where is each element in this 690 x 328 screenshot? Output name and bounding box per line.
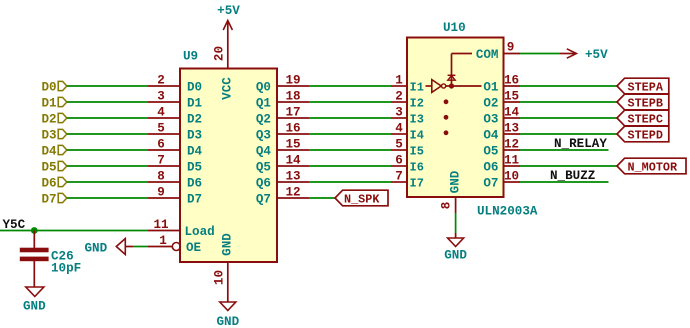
svg-text:10: 10 bbox=[213, 270, 227, 285]
power +5V symbol at U9 VCC bbox=[217, 4, 240, 39]
svg-text:1: 1 bbox=[159, 234, 167, 248]
wire D3 to U9 pin 5 bbox=[67, 133, 148, 135]
svg-text:Q6: Q6 bbox=[256, 177, 271, 191]
U10 pin name I7 bbox=[410, 177, 424, 191]
U9 pin name OE bbox=[186, 241, 202, 255]
svg-text:D1: D1 bbox=[42, 97, 58, 111]
svg-text:O2: O2 bbox=[483, 97, 498, 111]
svg-text:9: 9 bbox=[157, 186, 165, 200]
global label STEPA bbox=[617, 78, 669, 94]
U9 pin 6 (D4) bbox=[148, 138, 180, 152]
U9 pin 11 (Load) bbox=[148, 218, 180, 232]
svg-text:13: 13 bbox=[504, 122, 519, 136]
IC U10 ULN2003A body bbox=[407, 38, 504, 198]
ground symbol below U10 bbox=[444, 233, 467, 263]
U10 pin 6 (I6) bbox=[391, 154, 407, 168]
svg-text:11: 11 bbox=[153, 218, 169, 232]
svg-text:OE: OE bbox=[186, 241, 202, 255]
svg-text:O4: O4 bbox=[483, 129, 499, 143]
U9 pin 20 VCC bbox=[213, 39, 228, 69]
U9 reference designator bbox=[183, 50, 198, 64]
svg-text:Q7: Q7 bbox=[256, 193, 271, 207]
U9 pin 1 (OE, inverted) bbox=[148, 234, 180, 250]
U9 pin name Q3 bbox=[256, 129, 271, 143]
U9 pin name D1 bbox=[187, 97, 203, 111]
svg-text:O1: O1 bbox=[483, 81, 499, 95]
U10 pin 5 (I5) bbox=[391, 138, 407, 152]
wire U10 pin 8 to GND bbox=[455, 213, 457, 233]
hierarchical label D2 bbox=[42, 113, 67, 127]
U10 pin name O7 bbox=[483, 177, 498, 191]
U10 pin 9 (COM) bbox=[504, 41, 521, 55]
svg-text:+5V: +5V bbox=[217, 4, 240, 18]
wire O5 N_RELAY bbox=[520, 149, 609, 151]
net label Y5C bbox=[3, 218, 26, 232]
svg-text:D4: D4 bbox=[187, 145, 203, 159]
svg-text:Q5: Q5 bbox=[256, 161, 271, 175]
U10 pin name I1 bbox=[410, 81, 424, 95]
wire Q0 to U10 pin 1 bbox=[309, 85, 391, 87]
svg-text:7: 7 bbox=[395, 170, 403, 184]
svg-text:COM: COM bbox=[476, 48, 499, 62]
U9 pin name D2 bbox=[187, 113, 202, 127]
U10 pin 15 (O2) bbox=[504, 90, 521, 104]
svg-text:4: 4 bbox=[395, 122, 403, 136]
svg-text:D3: D3 bbox=[187, 129, 202, 143]
svg-text:D6: D6 bbox=[42, 177, 57, 191]
U10 pin name O5 bbox=[483, 145, 498, 159]
ground symbol below C26 bbox=[23, 287, 46, 314]
power +5V symbol at U10 COM bbox=[560, 48, 608, 62]
wire O2 to STEPB bbox=[520, 101, 617, 103]
svg-text:16: 16 bbox=[504, 74, 519, 88]
global label N_MOTOR bbox=[617, 158, 686, 174]
junction at Y5C node bbox=[31, 227, 38, 234]
svg-text:5: 5 bbox=[395, 138, 403, 152]
U10 pin 7 (I7) bbox=[391, 170, 407, 184]
hierarchical label D6 bbox=[42, 177, 67, 191]
U10 pin name O1 bbox=[483, 81, 499, 95]
svg-text:6: 6 bbox=[157, 138, 165, 152]
U9 pin 15 (Q4) bbox=[277, 138, 309, 152]
svg-text:3: 3 bbox=[395, 106, 403, 120]
U9 pin 9 (D7) bbox=[148, 186, 180, 200]
C26 reference designator bbox=[51, 250, 74, 264]
U10 pin name O2 bbox=[483, 97, 498, 111]
U9 pin name Q5 bbox=[256, 161, 271, 175]
svg-text:D5: D5 bbox=[42, 161, 57, 175]
svg-text:U9: U9 bbox=[183, 50, 198, 64]
svg-text:STEPC: STEPC bbox=[628, 112, 663, 126]
svg-text:Q0: Q0 bbox=[256, 81, 271, 95]
wire O6 to N_MOTOR bbox=[520, 165, 617, 167]
U9 pin name D5 bbox=[187, 161, 202, 175]
U9 pin 14 (Q5) bbox=[277, 154, 309, 168]
svg-text:D5: D5 bbox=[187, 161, 202, 175]
ground symbol below U9 bbox=[216, 302, 239, 328]
U10 pin 14 (O3) bbox=[504, 106, 521, 120]
svg-text:U10: U10 bbox=[443, 21, 466, 35]
U10 pin 3 (I3) bbox=[391, 106, 407, 120]
wire Q4 to U10 pin 5 bbox=[309, 149, 391, 151]
U10 pin 8 GND bbox=[440, 197, 456, 213]
U10 pin 12 (O5) bbox=[504, 138, 521, 152]
U9 pin name Q2 bbox=[256, 113, 271, 127]
svg-text:N_RELAY: N_RELAY bbox=[554, 137, 607, 151]
wire Q3 to U10 pin 4 bbox=[309, 133, 391, 135]
svg-text:D1: D1 bbox=[187, 97, 203, 111]
U10 pin 13 (O4) bbox=[504, 122, 521, 136]
ground symbol at U9 OE pin bbox=[85, 239, 134, 256]
svg-text:STEPA: STEPA bbox=[628, 80, 664, 94]
capacitor C26 bbox=[20, 248, 49, 287]
hierarchical label D5 bbox=[42, 161, 67, 175]
net label N_RELAY bbox=[554, 137, 607, 151]
wire Q5 to U10 pin 6 bbox=[309, 165, 391, 167]
U9 pin 16 (Q3) bbox=[277, 122, 309, 136]
wire Q1 to U10 pin 2 bbox=[309, 101, 391, 103]
svg-text:GND: GND bbox=[444, 249, 467, 263]
wire O3 to STEPC bbox=[520, 117, 617, 119]
svg-text:D0: D0 bbox=[42, 81, 57, 95]
hierarchical label D1 bbox=[42, 97, 67, 111]
svg-text:I2: I2 bbox=[410, 97, 424, 111]
wire O7 N_BUZZ bbox=[520, 181, 609, 183]
U9 pin 4 (D2) bbox=[148, 106, 180, 120]
U10 pin name I4 bbox=[410, 129, 424, 143]
wire D2 to U9 pin 4 bbox=[67, 117, 148, 119]
svg-text:I3: I3 bbox=[410, 113, 424, 127]
U9 pin name Q1 bbox=[256, 97, 272, 111]
wire GND to U9 pin 1 (OE) bbox=[133, 246, 148, 248]
svg-text:18: 18 bbox=[285, 90, 300, 104]
svg-text:I6: I6 bbox=[410, 161, 424, 175]
U9 pin name VCC bbox=[221, 77, 235, 100]
svg-text:VCC: VCC bbox=[221, 77, 235, 100]
wire O4 to STEPD bbox=[520, 133, 617, 135]
svg-text:8: 8 bbox=[440, 202, 454, 210]
U10 pin name O4 bbox=[483, 129, 499, 143]
U9 pin name Q6 bbox=[256, 177, 271, 191]
wire Q2 to U10 pin 3 bbox=[309, 117, 391, 119]
U10 pin name O6 bbox=[483, 161, 498, 175]
U10 value ULN2003A bbox=[477, 205, 538, 219]
IC U9 74HC573-style latch body bbox=[180, 69, 277, 263]
svg-text:N_SPK: N_SPK bbox=[344, 193, 380, 207]
svg-text:10pF: 10pF bbox=[51, 262, 81, 276]
U9 pin name Load bbox=[185, 225, 215, 239]
svg-text:I1: I1 bbox=[410, 81, 424, 95]
wire D4 to U9 pin 6 bbox=[67, 149, 148, 151]
U9 pin name GND bbox=[221, 233, 235, 256]
svg-text:N_BUZZ: N_BUZZ bbox=[550, 169, 595, 183]
wire Q6 to U10 pin 7 bbox=[309, 181, 391, 183]
U10 pin name GND bbox=[449, 170, 463, 193]
svg-text:2: 2 bbox=[395, 90, 403, 104]
U9 pin 13 (Q6) bbox=[277, 170, 309, 184]
svg-text:6: 6 bbox=[395, 154, 403, 168]
U10 pin name O3 bbox=[483, 113, 498, 127]
wire junction to C26 bbox=[33, 231, 35, 249]
svg-text:7: 7 bbox=[157, 154, 165, 168]
U9 pin name Q7 bbox=[256, 193, 271, 207]
svg-text:I5: I5 bbox=[410, 145, 424, 159]
C26 value 10pF bbox=[51, 262, 81, 276]
U10 pin 11 (O6) bbox=[504, 154, 521, 168]
U10 internal continuation dots bbox=[444, 99, 449, 135]
svg-text:D7: D7 bbox=[42, 193, 57, 207]
svg-text:Load: Load bbox=[185, 225, 215, 239]
svg-text:Q2: Q2 bbox=[256, 113, 271, 127]
svg-text:D0: D0 bbox=[187, 81, 202, 95]
svg-text:8: 8 bbox=[157, 170, 165, 184]
svg-text:STEPD: STEPD bbox=[628, 128, 663, 142]
U9 pin 17 (Q2) bbox=[277, 106, 309, 120]
U10 pin name COM bbox=[476, 48, 499, 62]
U9 pin 18 (Q1) bbox=[277, 90, 309, 104]
svg-text:11: 11 bbox=[504, 154, 520, 168]
svg-text:15: 15 bbox=[504, 90, 519, 104]
U9 pin name D3 bbox=[187, 129, 202, 143]
U10 pin 1 (I1) bbox=[391, 74, 407, 88]
U10 pin 10 (O7) bbox=[504, 170, 521, 184]
U9 pin 7 (D5) bbox=[148, 154, 180, 168]
svg-text:GND: GND bbox=[85, 242, 108, 256]
svg-text:O6: O6 bbox=[483, 161, 498, 175]
wire Y5C to U9 pin 11 (Load) bbox=[0, 230, 148, 232]
global label STEPC bbox=[617, 110, 669, 126]
svg-text:9: 9 bbox=[507, 41, 515, 55]
U10 pin 2 (I2) bbox=[391, 90, 407, 104]
wire D1 to U9 pin 3 bbox=[67, 101, 148, 103]
U9 pin name D6 bbox=[187, 177, 202, 191]
svg-text:10: 10 bbox=[504, 170, 519, 184]
svg-text:ULN2003A: ULN2003A bbox=[477, 205, 538, 219]
svg-text:12: 12 bbox=[285, 186, 300, 200]
wire COM to +5V bbox=[520, 53, 560, 55]
U10 pin name I6 bbox=[410, 161, 424, 175]
U9 pin 19 (Q0) bbox=[277, 74, 309, 88]
svg-text:12: 12 bbox=[504, 138, 519, 152]
svg-text:D3: D3 bbox=[42, 129, 57, 143]
svg-text:Q1: Q1 bbox=[256, 97, 272, 111]
svg-text:STEPB: STEPB bbox=[628, 96, 663, 110]
svg-text:D7: D7 bbox=[187, 193, 202, 207]
svg-text:GND: GND bbox=[216, 315, 239, 328]
svg-text:3: 3 bbox=[157, 90, 165, 104]
U10 pin 4 (I4) bbox=[391, 122, 407, 136]
wire Q7 to N_SPK bbox=[309, 197, 335, 199]
wire D0 to U9 pin 2 bbox=[67, 85, 148, 87]
U9 pin 12 (Q7) bbox=[277, 186, 309, 200]
svg-text:O5: O5 bbox=[483, 145, 498, 159]
U9 pin 8 (D6) bbox=[148, 170, 180, 184]
U10 pin 16 (O1) bbox=[504, 74, 521, 88]
U9 pin 10 GND bbox=[213, 262, 228, 302]
U9 pin 2 (D0) bbox=[148, 74, 180, 88]
U9 pin name Q4 bbox=[256, 145, 272, 159]
svg-text:D2: D2 bbox=[42, 113, 57, 127]
U10 pin name I5 bbox=[410, 145, 424, 159]
U10 pin name I3 bbox=[410, 113, 424, 127]
global label N_SPK bbox=[335, 190, 388, 206]
U10 internal darlington symbol bbox=[426, 80, 482, 93]
U9 pin name D4 bbox=[187, 145, 203, 159]
U9 pin 3 (D1) bbox=[148, 90, 180, 104]
svg-text:+5V: +5V bbox=[585, 48, 608, 62]
svg-text:14: 14 bbox=[285, 154, 301, 168]
svg-text:16: 16 bbox=[285, 122, 300, 136]
svg-text:17: 17 bbox=[285, 106, 300, 120]
U10 internal clamp diode bbox=[448, 54, 472, 87]
svg-text:5: 5 bbox=[157, 122, 165, 136]
U9 pin 5 (D3) bbox=[148, 122, 180, 136]
hierarchical label D7 bbox=[42, 193, 67, 207]
svg-text:1: 1 bbox=[395, 74, 403, 88]
svg-text:20: 20 bbox=[213, 46, 227, 61]
net label N_BUZZ bbox=[550, 169, 595, 183]
hierarchical label D4 bbox=[42, 145, 67, 159]
svg-text:I7: I7 bbox=[410, 177, 424, 191]
wire O1 to STEPA bbox=[520, 85, 617, 87]
U10 reference designator bbox=[443, 21, 466, 35]
U9 pin name Q0 bbox=[256, 81, 271, 95]
svg-text:2: 2 bbox=[157, 74, 165, 88]
svg-text:GND: GND bbox=[221, 233, 235, 256]
global label STEPB bbox=[617, 94, 669, 110]
wire D7 to U9 pin 9 bbox=[67, 197, 148, 199]
svg-text:D4: D4 bbox=[42, 145, 58, 159]
U10 pin name I2 bbox=[410, 97, 424, 111]
svg-text:N_MOTOR: N_MOTOR bbox=[628, 160, 678, 174]
svg-text:Q3: Q3 bbox=[256, 129, 271, 143]
svg-text:O3: O3 bbox=[483, 113, 498, 127]
svg-text:19: 19 bbox=[285, 74, 300, 88]
svg-text:GND: GND bbox=[23, 300, 46, 314]
svg-text:D2: D2 bbox=[187, 113, 202, 127]
svg-text:I4: I4 bbox=[410, 129, 424, 143]
svg-text:14: 14 bbox=[504, 106, 520, 120]
svg-text:13: 13 bbox=[285, 170, 300, 184]
wire D5 to U9 pin 7 bbox=[67, 165, 148, 167]
hierarchical label D0 bbox=[42, 81, 67, 95]
wire D6 to U9 pin 8 bbox=[67, 181, 148, 183]
svg-text:4: 4 bbox=[157, 106, 165, 120]
svg-text:D6: D6 bbox=[187, 177, 202, 191]
hierarchical label D3 bbox=[42, 129, 67, 143]
svg-text:O7: O7 bbox=[483, 177, 498, 191]
svg-text:Q4: Q4 bbox=[256, 145, 272, 159]
svg-text:GND: GND bbox=[449, 170, 463, 193]
junction at U10 internal node bbox=[449, 83, 454, 88]
U9 pin name D0 bbox=[187, 81, 202, 95]
U9 pin name D7 bbox=[187, 193, 202, 207]
global label STEPD bbox=[617, 126, 669, 142]
svg-text:15: 15 bbox=[285, 138, 300, 152]
